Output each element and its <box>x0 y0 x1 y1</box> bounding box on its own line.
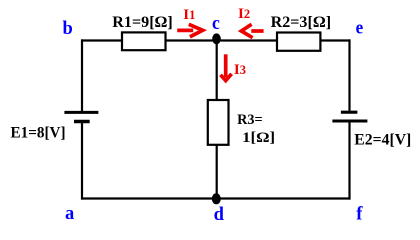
svg-text:f: f <box>356 204 363 224</box>
svg-text:E2=4[V]: E2=4[V] <box>354 132 411 149</box>
battery E2 long plate <box>332 120 367 123</box>
wire right upper (e down to E2) <box>348 39 350 110</box>
svg-text:a: a <box>65 204 74 224</box>
node d junction dot <box>212 193 221 204</box>
svg-text:b: b <box>63 19 73 39</box>
svg-text:I1: I1 <box>183 7 195 23</box>
current arrow I2 shaft <box>251 29 263 33</box>
resistor R1 <box>122 32 166 50</box>
battery E1 short plate <box>74 120 90 124</box>
resistor R2 <box>277 33 320 51</box>
svg-text:e: e <box>356 18 364 38</box>
wire left upper (b down to E1) <box>81 39 83 111</box>
svg-text:c: c <box>212 14 220 34</box>
battery E2 short plate <box>341 111 358 114</box>
battery E1 long plate <box>64 111 98 114</box>
wire bottom a-d-f <box>81 197 351 199</box>
svg-text:R3=: R3= <box>237 112 263 128</box>
current arrow I3 shaft <box>224 54 228 77</box>
svg-text:R1=9[Ω]: R1=9[Ω] <box>112 14 173 31</box>
current arrow I1 shaft <box>177 29 193 33</box>
svg-text:d: d <box>214 205 225 225</box>
node c junction dot <box>212 33 221 44</box>
current arrow I3 head <box>221 74 232 81</box>
current arrow I2 head <box>241 24 252 37</box>
resistor R3 <box>208 100 229 145</box>
svg-text:R2=3[Ω]: R2=3[Ω] <box>271 14 332 31</box>
svg-text:E1=8[V]: E1=8[V] <box>11 125 66 142</box>
svg-text:I3: I3 <box>234 62 246 78</box>
svg-text:1[Ω]: 1[Ω] <box>242 130 275 146</box>
wire middle c-d <box>216 41 218 199</box>
current arrow I1 head <box>189 24 203 37</box>
svg-text:I2: I2 <box>238 6 250 22</box>
wire left lower (E1 down to a) <box>81 123 83 200</box>
wire top b-c-e <box>81 39 351 41</box>
wire right lower (E2 down to f) <box>348 123 350 200</box>
